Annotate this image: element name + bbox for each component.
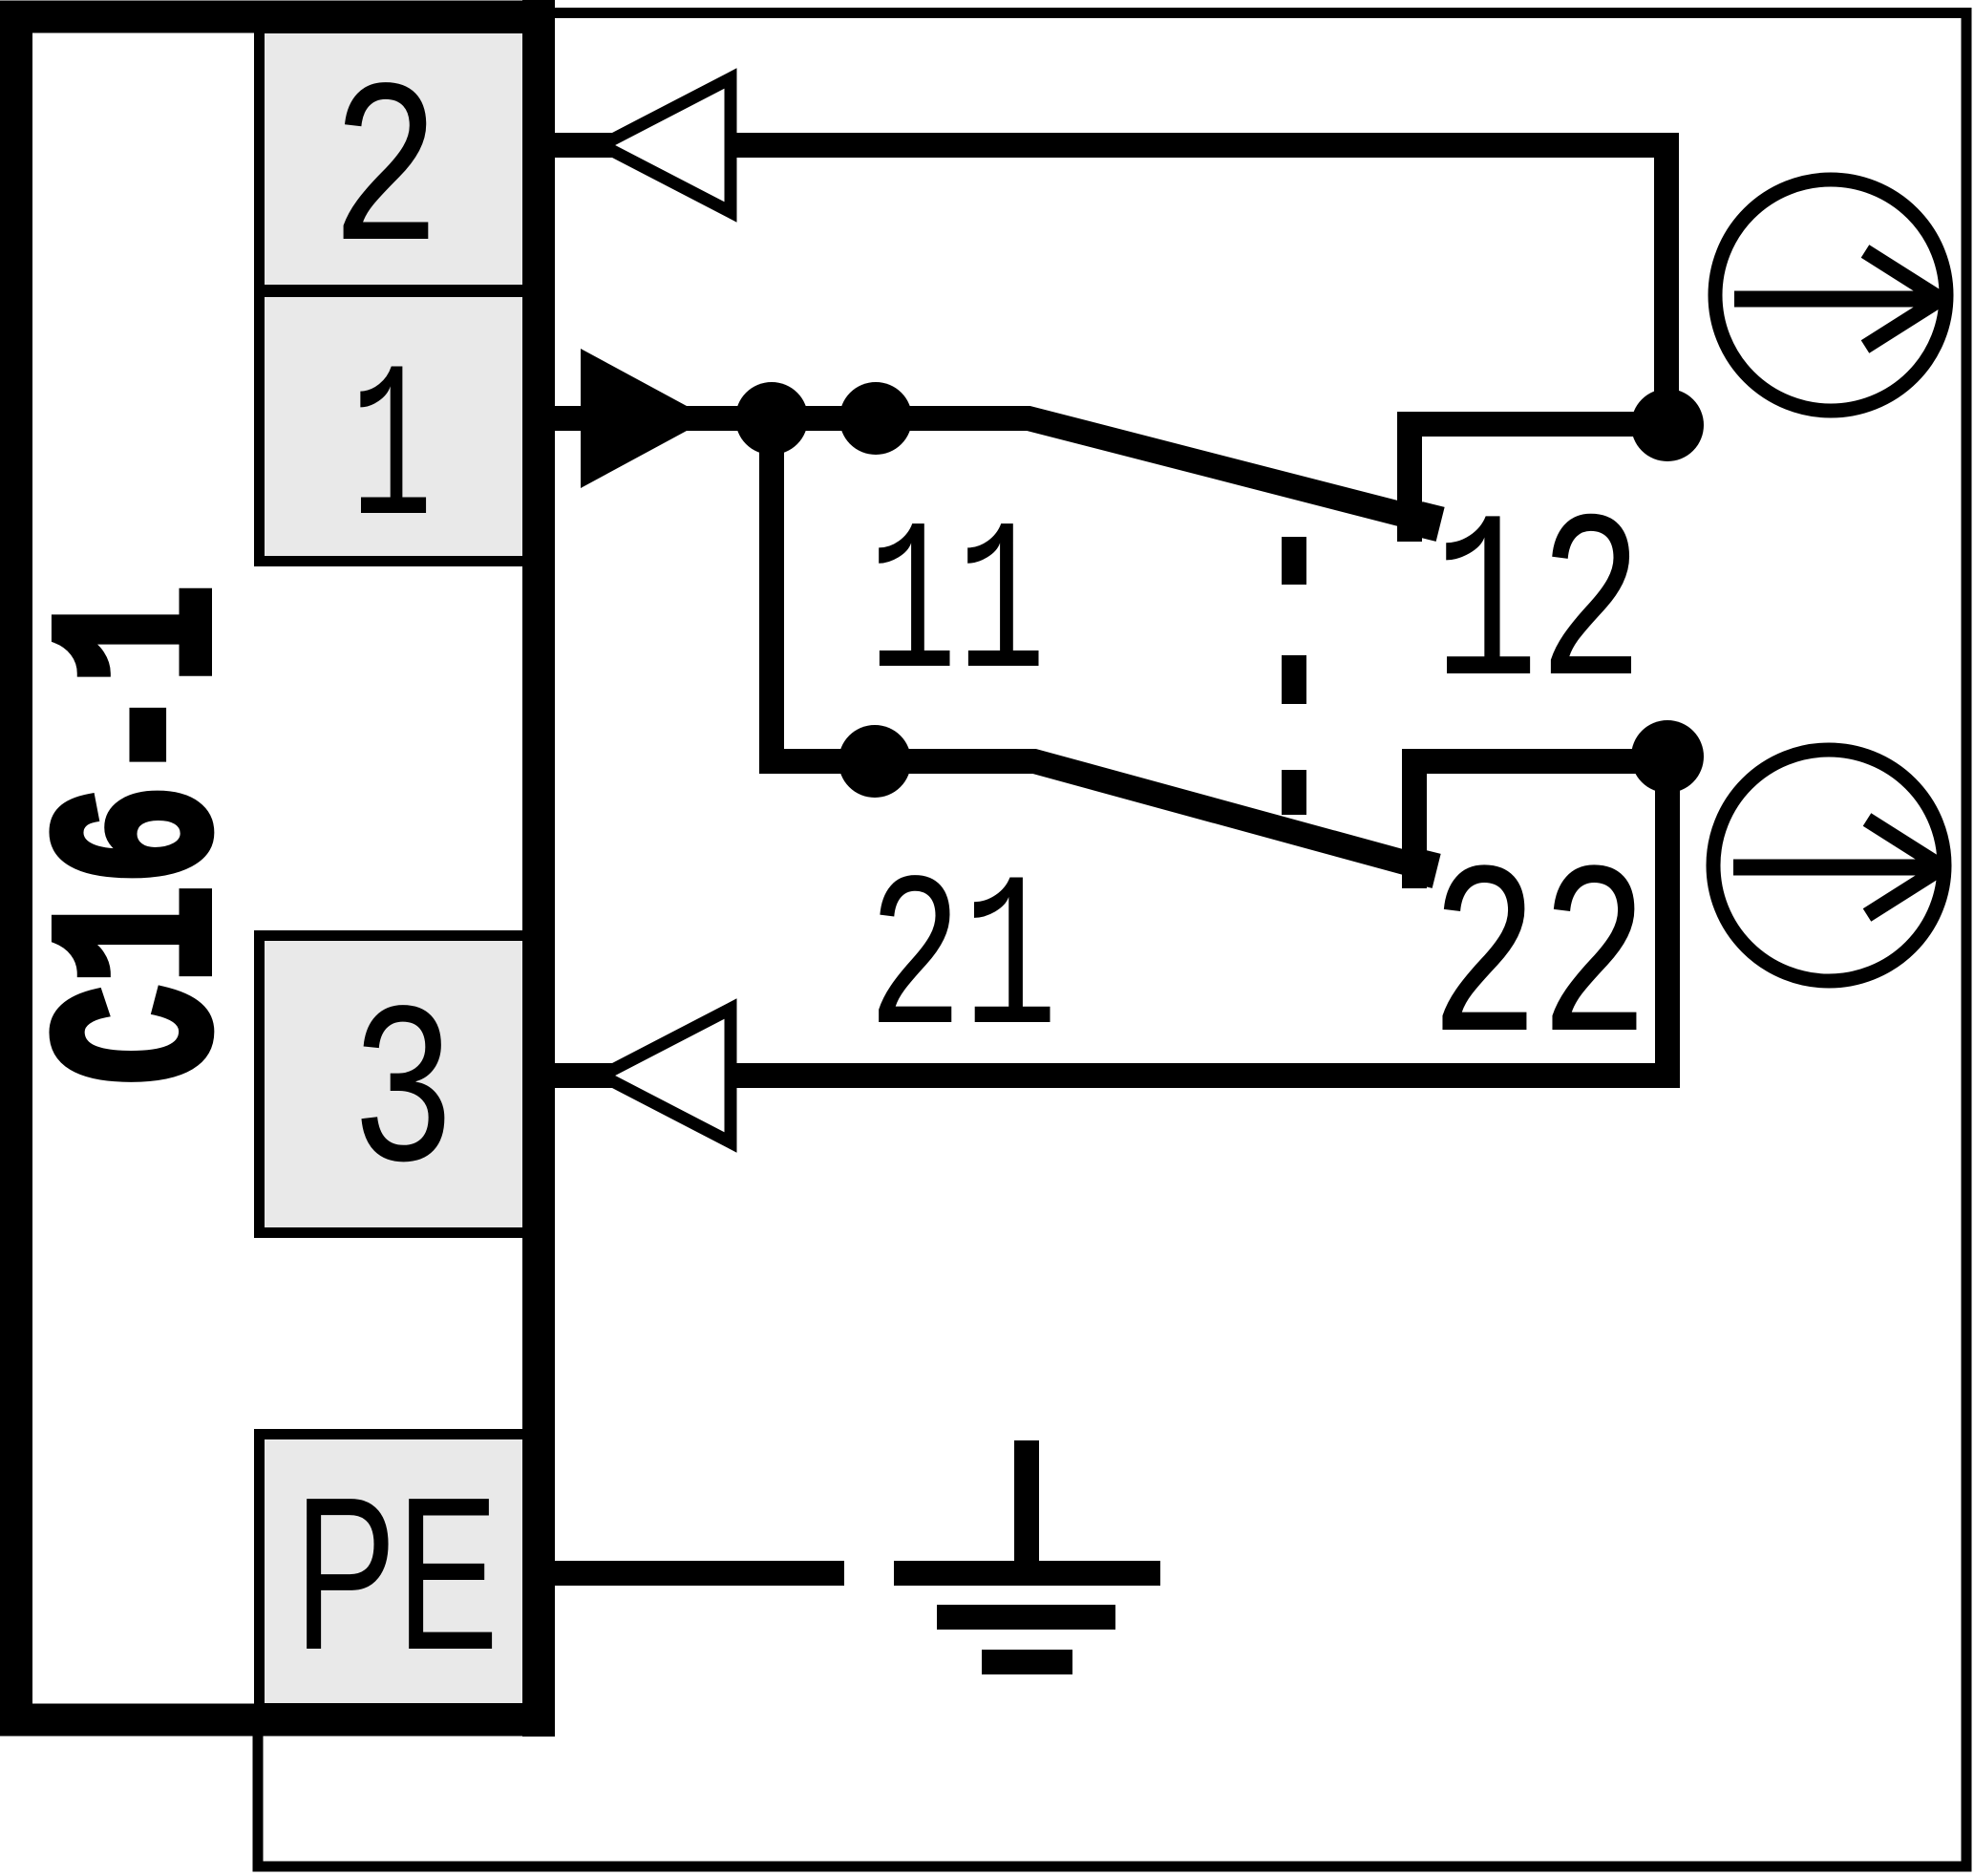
svg-text:1: 1 <box>350 328 433 580</box>
mechanical coupling dashed line <box>1282 537 1306 585</box>
actuator symbol circle 2 <box>1713 750 1944 981</box>
terminal box PE <box>260 1435 541 1709</box>
connector body box C16-1 <box>16 17 539 1720</box>
svg-text:22: 22 <box>1430 825 1649 1104</box>
contact blade 21-22 <box>875 761 1426 868</box>
svg-text:PE: PE <box>294 1453 499 1695</box>
open arrow on wire 3 <box>602 1009 731 1142</box>
svg-text:C16-1: C16-1 <box>17 585 277 1085</box>
wire terminal PE <box>555 1561 844 1586</box>
wire terminal 2 <box>555 145 1666 426</box>
terminal box 3 <box>260 936 541 1233</box>
actuator symbol circle 1 <box>1715 180 1946 411</box>
node dot 5 <box>1631 720 1704 793</box>
blade 11-12 tip tick <box>1425 504 1433 539</box>
actuator arrow 1 <box>1734 291 1941 308</box>
filled arrow on wire 1 <box>581 349 710 488</box>
node dot 2 <box>839 382 912 455</box>
node dot 3 <box>838 725 911 798</box>
contact blade 11-12 <box>876 418 1430 522</box>
node dot 4 <box>1631 389 1704 461</box>
node dot 1 <box>735 382 808 455</box>
wire terminal 1 <box>555 406 876 431</box>
svg-text:21: 21 <box>868 841 1058 1089</box>
open arrow on wire 2 <box>602 78 731 212</box>
right thick bar of connector (redraw to be safe) <box>522 0 555 1737</box>
svg-text:2: 2 <box>330 44 441 309</box>
svg-text:3: 3 <box>350 968 456 1229</box>
svg-text:11: 11 <box>868 486 1046 731</box>
terminal box 2 <box>260 29 541 290</box>
fixed contact 22 <box>1414 761 1667 888</box>
actuator arrow 2 <box>1733 860 1942 876</box>
terminal box 1 <box>260 292 541 562</box>
wire terminal 3 <box>555 759 1667 1076</box>
wire from dot1 down to lower pole <box>772 418 875 761</box>
ground symbol <box>1014 1440 1039 1573</box>
svg-text:12: 12 <box>1433 476 1644 746</box>
fixed contact 12 <box>1410 424 1667 542</box>
blade 21-22 tip tick <box>1421 851 1430 885</box>
